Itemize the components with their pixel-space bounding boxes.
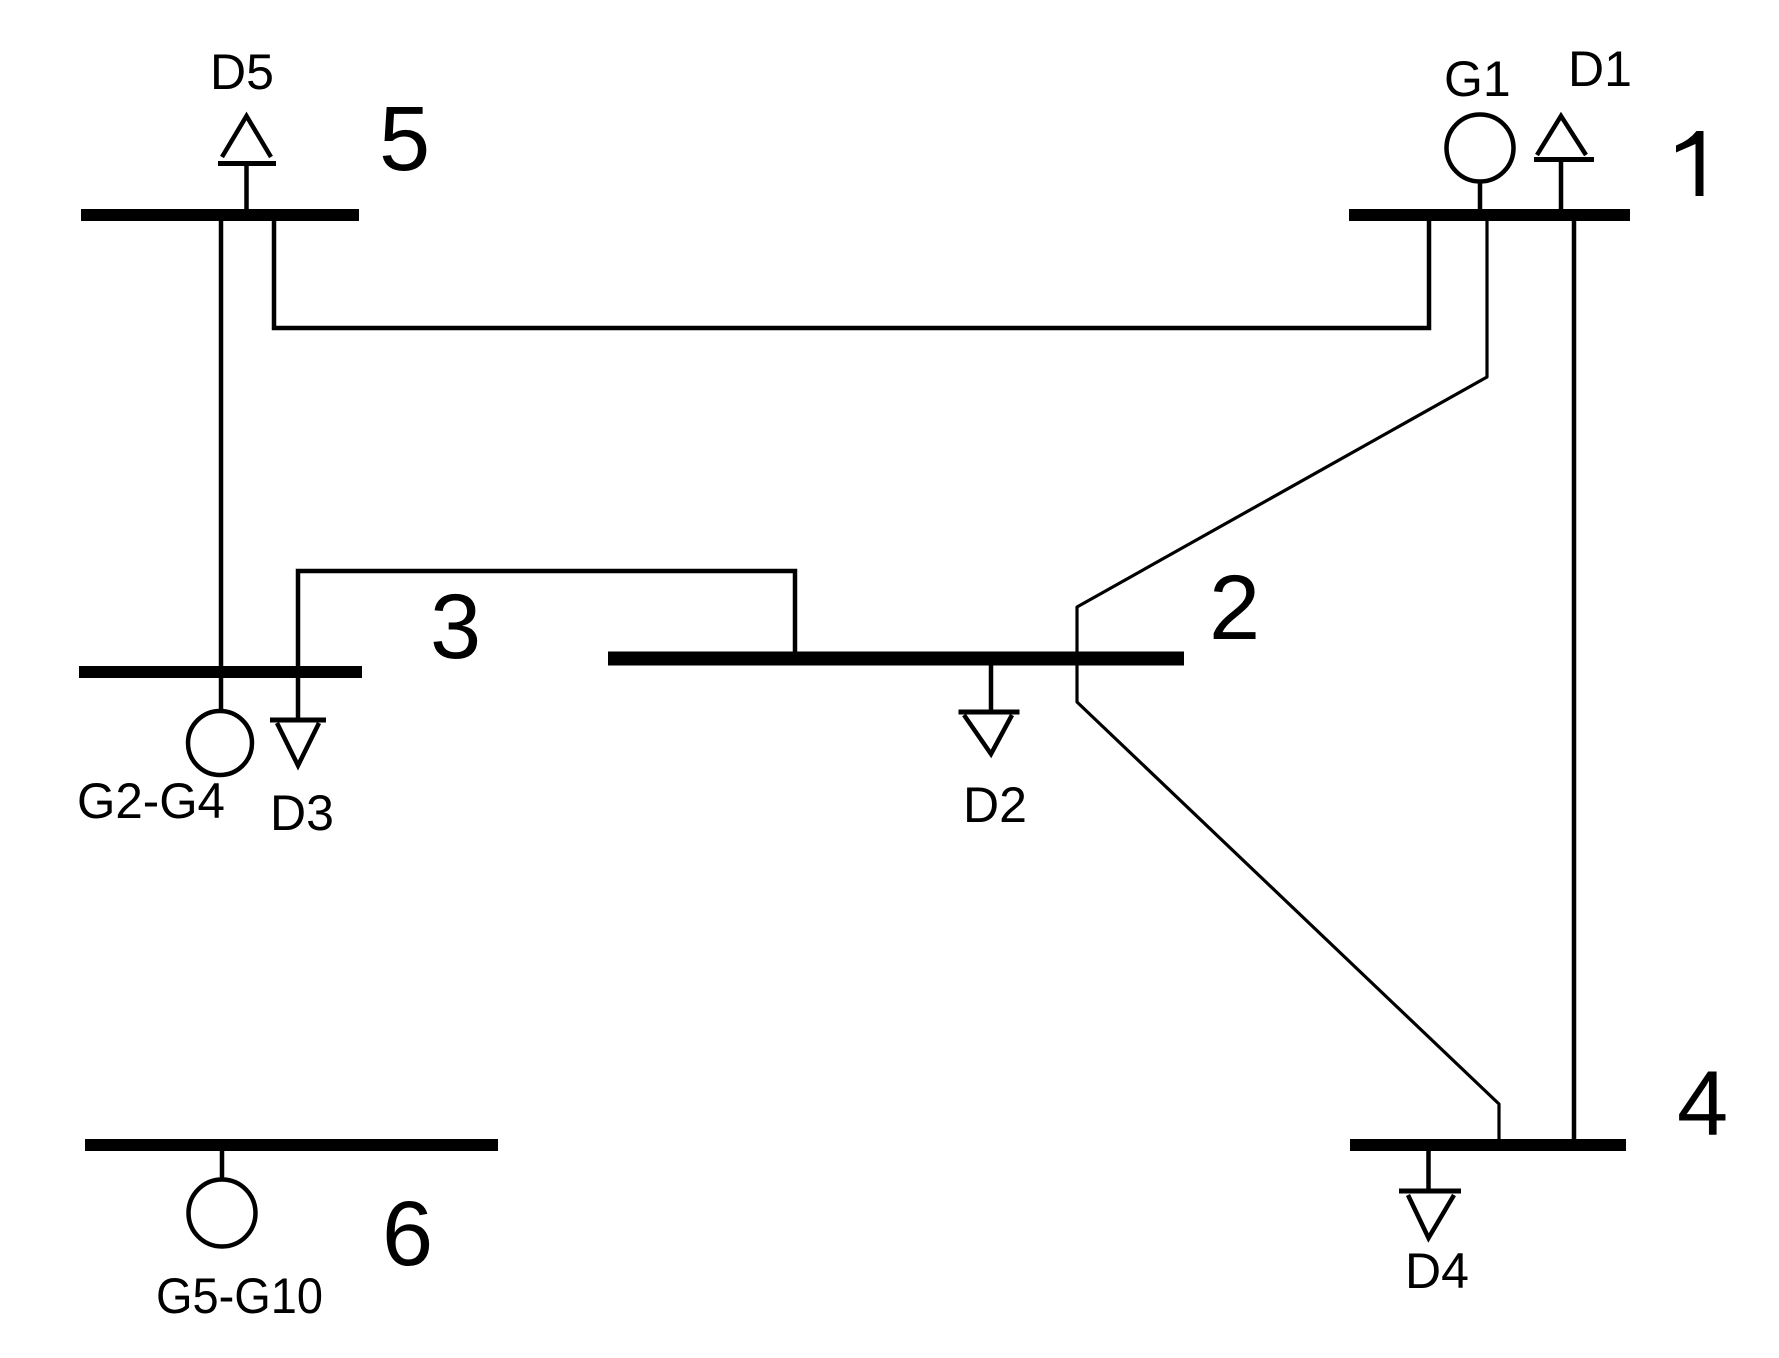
wire 1-2 [1077,215,1487,659]
bus 2 [608,652,1184,666]
label D4 [1405,1243,1469,1299]
label 4 [1677,1053,1728,1155]
generator G1 [1447,115,1514,216]
svg-text:D5: D5 [210,44,274,100]
load D4 [1399,1145,1461,1238]
label G2-G4 [77,773,225,829]
wire 5-1 [274,215,1429,328]
bus 5 [81,209,359,221]
label 5 [379,88,430,190]
load D5 [218,116,276,215]
svg-text:4: 4 [1677,1053,1728,1155]
label G5-G10 [156,1268,323,1324]
svg-text:D4: D4 [1405,1243,1469,1299]
label G1 [1444,51,1511,107]
svg-text:2: 2 [1209,557,1260,659]
svg-text:3: 3 [430,576,481,678]
bus 6 [85,1139,498,1151]
wire 2-4 [1077,659,1499,1146]
load D3 [270,672,326,766]
svg-text:D3: D3 [270,785,334,841]
svg-text:D1: D1 [1568,41,1632,97]
bus 3 [79,666,362,678]
label 3 [430,576,481,678]
label D5 [210,44,274,100]
label 6 [382,1183,433,1285]
svg-text:G5-G10: G5-G10 [156,1268,323,1324]
load D2 [959,659,1020,754]
generator G5-G10 [189,1145,256,1247]
wire 5-3 [219,215,224,672]
svg-text:D2: D2 [963,777,1027,833]
bus 4 [1350,1139,1626,1151]
label 2 [1209,557,1260,659]
wire 1-4 [1572,215,1577,1145]
label 1 [1676,131,1704,196]
label D2 [963,777,1027,833]
svg-text:6: 6 [382,1183,433,1285]
generator G2-G4 [188,672,252,775]
svg-text:5: 5 [379,88,430,190]
label D3 [270,785,334,841]
load D1 [1534,116,1594,215]
svg-text:G2-G4: G2-G4 [77,773,225,829]
bus 1 [1349,209,1630,221]
wire 3-2 [298,571,795,672]
svg-text:G1: G1 [1444,51,1511,107]
label D1 [1568,41,1632,97]
